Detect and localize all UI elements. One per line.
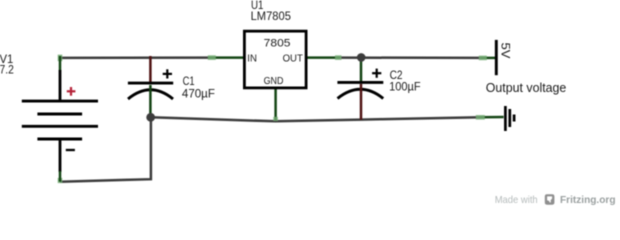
svg-text:IN: IN: [247, 53, 257, 64]
svg-text:LM7805: LM7805: [251, 11, 291, 23]
svg-text:470µF: 470µF: [182, 86, 215, 100]
svg-text:OUT: OUT: [283, 54, 303, 65]
svg-text:GND: GND: [264, 76, 284, 87]
svg-text:5V: 5V: [499, 43, 513, 60]
svg-text:Output voltage: Output voltage: [486, 80, 567, 95]
svg-text:7.2: 7.2: [0, 63, 14, 77]
svg-text:Fritzing.org: Fritzing.org: [560, 194, 616, 206]
svg-text:7805: 7805: [264, 37, 291, 49]
svg-text:100µF: 100µF: [389, 80, 421, 94]
svg-text:Made with: Made with: [495, 195, 538, 206]
